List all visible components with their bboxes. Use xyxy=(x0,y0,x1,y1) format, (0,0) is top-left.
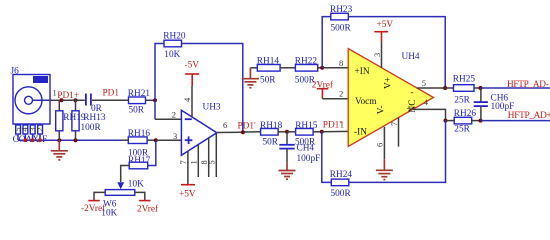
connector J6 center stub xyxy=(33,99,51,101)
feedback wire up to RH23 xyxy=(322,17,331,68)
plus symbol xyxy=(185,139,193,141)
UH4 pin 7 (NC stub) xyxy=(398,118,400,147)
ground symbol under bus xyxy=(51,140,68,160)
svg-text:50R: 50R xyxy=(129,105,145,115)
svg-text:CH4: CH4 xyxy=(297,143,315,153)
svg-text:Vocm: Vocm xyxy=(355,97,377,107)
junction RH13 bottom xyxy=(74,138,78,142)
potentiometer W6 body xyxy=(105,190,135,196)
svg-text:1: 1 xyxy=(340,120,344,130)
svg-text:3: 3 xyxy=(173,131,177,141)
wire RH17 to wiper xyxy=(121,166,130,183)
output pin 6 of UH3 xyxy=(217,131,243,133)
node CH4 junction xyxy=(285,130,289,134)
wire node to op-amp pin3 xyxy=(156,139,182,141)
power port +5V (UH3) xyxy=(181,184,195,186)
capacitor CH6 stub bottom xyxy=(480,106,482,121)
svg-text:-: - xyxy=(411,88,414,98)
svg-text:6: 6 xyxy=(375,143,385,147)
wire to UH4 -IN pin 1 xyxy=(322,130,348,132)
wire RH18 to node xyxy=(278,131,287,133)
wire bus to RH16 xyxy=(123,139,129,141)
CH4 lower stub xyxy=(286,149,288,163)
wire RH20 to output node xyxy=(182,44,243,133)
svg-text:3: 3 xyxy=(372,53,382,57)
series capacitor plates xyxy=(85,94,87,106)
svg-text:V-: V- xyxy=(377,105,387,114)
connector J6 coax outer circle xyxy=(15,87,42,114)
svg-text:RH25: RH25 xyxy=(453,74,476,84)
svg-text:100pF: 100pF xyxy=(491,102,515,112)
amplifier UH4 body xyxy=(348,49,433,147)
junction pin3 xyxy=(31,138,35,142)
pin 4 stub xyxy=(24,134,26,140)
svg-text:0R: 0R xyxy=(91,104,103,114)
W6 left terminal wire xyxy=(94,192,105,200)
svg-text:RH13: RH13 xyxy=(83,113,106,123)
UH4 pin 5 output xyxy=(417,87,445,89)
svg-text:UH3: UH3 xyxy=(203,103,221,113)
UH3 bottom pin 7 xyxy=(187,151,189,184)
svg-text:500R: 500R xyxy=(331,23,352,33)
wire pin5 node to RH25 xyxy=(445,87,453,89)
svg-text:PD1': PD1' xyxy=(238,122,257,132)
UH3 bottom pin 8 xyxy=(208,138,210,177)
capacitor CH4 plates xyxy=(279,144,294,146)
wire PD1+ to capacitor xyxy=(62,99,85,101)
ground under UH4 xyxy=(376,159,393,179)
connector J6 pin 5 box xyxy=(16,125,21,134)
svg-text:1: 1 xyxy=(53,88,57,98)
pin 1 wire from connector xyxy=(50,99,62,101)
svg-text:5: 5 xyxy=(422,78,426,88)
node RH21 output junction xyxy=(153,98,157,102)
wire HFTP_AD+ out xyxy=(481,120,550,122)
svg-text:2: 2 xyxy=(172,110,176,120)
connector J6 pin 4 box xyxy=(23,125,28,134)
svg-text:+5V: +5V xyxy=(179,189,196,199)
svg-text:10K: 10K xyxy=(164,50,180,60)
svg-text:4: 4 xyxy=(424,97,429,107)
svg-text:-5V: -5V xyxy=(185,60,200,70)
svg-text:100pF: 100pF xyxy=(297,154,321,164)
wire RH22 to node xyxy=(318,67,323,69)
capacitor CH6 stub top xyxy=(480,88,482,102)
pin 5 stub xyxy=(17,134,19,140)
svg-text:6: 6 xyxy=(223,120,227,130)
svg-text:500R: 500R xyxy=(331,189,352,199)
wire node to UH4 pin 8 xyxy=(322,67,348,69)
svg-text:RH24: RH24 xyxy=(330,170,353,180)
svg-text:10K: 10K xyxy=(128,179,144,189)
power port 2Vref xyxy=(139,200,150,202)
wire RH23 to output node xyxy=(348,17,445,88)
wire RH21 to node xyxy=(146,99,156,101)
svg-text:7: 7 xyxy=(389,122,399,126)
svg-text:5: 5 xyxy=(207,160,217,164)
svg-text:V+: V+ xyxy=(383,77,393,89)
node pin3 junction xyxy=(154,138,158,142)
svg-text:+5V: +5V xyxy=(377,20,394,30)
wire capacitor to RH21 xyxy=(92,99,129,101)
wire node down to RH17 xyxy=(148,140,156,165)
node PD1+ junction xyxy=(60,98,64,102)
ground bus wire xyxy=(18,139,123,141)
UH3 bottom pin 1 xyxy=(197,145,199,178)
resistor RH19 (vertical) xyxy=(58,100,60,111)
wire feedback vertical left xyxy=(155,44,164,120)
svg-text:8: 8 xyxy=(339,58,343,68)
node HFTP_AD- junction xyxy=(479,86,483,90)
svg-text:+: + xyxy=(407,105,412,115)
capacitor CH6 plates xyxy=(474,101,488,103)
UH4 pin 6 (V-) xyxy=(383,127,385,159)
wire RH14 to RH22 xyxy=(280,67,295,69)
UH4 pin 3 (V+) xyxy=(381,42,383,68)
svg-text:2: 2 xyxy=(339,89,343,99)
svg-text:100R: 100R xyxy=(81,123,102,133)
wire pin4 node to RH26 xyxy=(446,120,455,122)
node PD1' junction xyxy=(241,130,245,134)
svg-text:2Vref: 2Vref xyxy=(137,204,159,215)
junction RH13 top xyxy=(74,98,78,102)
wire node to RH15 xyxy=(287,131,296,133)
svg-text:50R: 50R xyxy=(263,138,279,148)
pin 3 stub xyxy=(32,134,34,140)
svg-text:4: 4 xyxy=(182,97,192,102)
capacitor CH4 stub xyxy=(286,132,288,145)
svg-text:1: 1 xyxy=(189,160,199,164)
connector J6 body xyxy=(13,75,50,125)
W6 right terminal wire xyxy=(135,192,145,200)
wire RH15 to node PD1'' xyxy=(313,131,322,133)
power port -2Vref xyxy=(88,200,99,202)
UH3 bottom pin 5 xyxy=(215,133,217,177)
junction pin4 xyxy=(23,138,27,142)
UH4 pin 4 output xyxy=(413,109,446,120)
pin 2 stub xyxy=(39,134,41,140)
ground at RH14 input xyxy=(250,67,257,69)
svg-text:25R: 25R xyxy=(454,95,470,105)
connector J6 pin 3 box xyxy=(30,125,35,134)
resistor RH13 (vertical) xyxy=(75,100,77,111)
node HFTP_AD+ junction xyxy=(479,119,483,123)
wire HFTP_AD- out xyxy=(481,87,550,89)
svg-text:HFTP_AD+: HFTP_AD+ xyxy=(508,111,550,121)
node +IN junction xyxy=(320,66,324,70)
wire -IN node down to RH24 xyxy=(322,132,332,183)
wire RH16 to node xyxy=(147,139,156,141)
wire RH24 to pin4 node xyxy=(349,121,446,183)
node pin4 junction xyxy=(444,119,448,123)
op-amp UH3 body xyxy=(181,110,216,155)
junction pin2 xyxy=(38,138,42,142)
wire RH25 to output node xyxy=(474,87,481,89)
node PD1'' junction xyxy=(320,130,324,134)
svg-text:PD1: PD1 xyxy=(103,89,120,99)
pin 4 of UH3 xyxy=(191,86,193,117)
power port -5V xyxy=(185,73,199,75)
svg-text:+IN: +IN xyxy=(355,67,370,77)
svg-text:-IN: -IN xyxy=(354,127,367,137)
connector J6 pin 2 box xyxy=(38,125,43,134)
svg-text:25R: 25R xyxy=(454,124,470,134)
node pin5 junction xyxy=(443,86,447,90)
wire RH26 to output node xyxy=(472,120,481,122)
ground under CH4 xyxy=(279,163,296,179)
potentiometer W6 wiper arrow xyxy=(117,182,124,189)
connector J6 coax inner circle xyxy=(25,96,33,104)
wire 2Vref to UH4 pin 2 xyxy=(322,98,348,100)
connector J6 shield tab xyxy=(33,76,48,83)
svg-text:50R: 50R xyxy=(260,76,276,86)
svg-text:HFTP_AD-: HFTP_AD- xyxy=(507,80,549,90)
junction RH19 bottom xyxy=(57,138,61,142)
svg-text:-2Vref: -2Vref xyxy=(81,203,106,214)
wire PD1' to RH18 xyxy=(243,131,261,133)
wire node to op-amp pin2 xyxy=(155,118,181,120)
svg-text:7: 7 xyxy=(178,160,188,164)
svg-text:UH4: UH4 xyxy=(402,52,420,62)
svg-text:2: 2 xyxy=(34,127,44,131)
minus symbol xyxy=(185,118,192,120)
